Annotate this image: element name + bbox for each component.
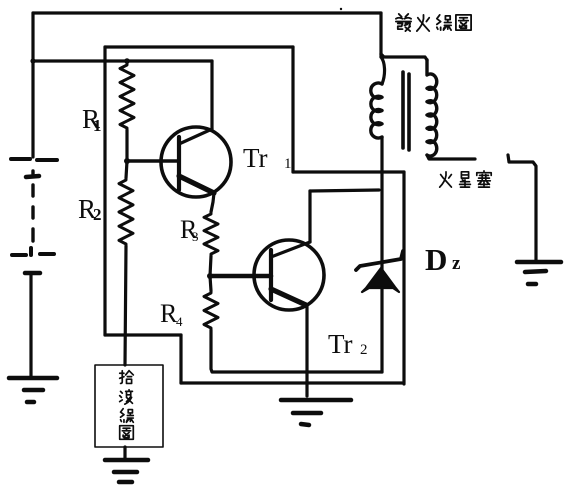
zener diode Dz anode triangle xyxy=(362,268,399,292)
svg-text:3: 3 xyxy=(192,229,199,244)
transistor Q2 emitter stroke xyxy=(271,289,306,305)
node C junction R1-R2-Tr1 base xyxy=(124,158,130,164)
wire inner-loop left step horizontal xyxy=(105,333,181,336)
transistor Q1 collector stroke xyxy=(179,129,212,144)
wire R3 to node D xyxy=(210,256,211,276)
wire R2 to pickup coil xyxy=(125,246,126,365)
wire Tr2 emitter down to ground xyxy=(305,305,308,396)
battery plate long 1 xyxy=(11,159,57,160)
resistor R4 xyxy=(204,291,218,330)
battery BAT vertical lead xyxy=(31,13,34,157)
node D junction R3-R4-Tr2 base xyxy=(207,273,213,279)
wire inner-loop bottom horizontal xyxy=(181,381,402,384)
wire inner-loop mid horizontal xyxy=(293,170,404,173)
ground G3 spark plug xyxy=(517,260,561,265)
svg-text:2: 2 xyxy=(360,342,368,358)
label 發火線圈 ignition coil xyxy=(396,14,471,31)
svg-text:2: 2 xyxy=(93,205,102,224)
ignition coil secondary winding xyxy=(427,60,437,156)
transistor Q2 base bar xyxy=(269,250,273,300)
wire Tr2 collector up xyxy=(308,191,311,242)
label 拾波線圈 pickup coil xyxy=(120,371,134,440)
svg-text:4: 4 xyxy=(176,314,183,329)
wire Tr1 collector vertical xyxy=(210,61,213,129)
ground G1 battery xyxy=(9,376,57,381)
svg-text:D: D xyxy=(425,242,447,277)
wire top supply from battery to ignition coil xyxy=(33,11,381,14)
battery plate short 1 xyxy=(26,176,39,177)
svg-text:1: 1 xyxy=(93,116,102,135)
label 火星塞 spark plug xyxy=(440,171,492,187)
wire coil drop vertical xyxy=(379,13,382,57)
svg-text:Tr: Tr xyxy=(328,329,353,359)
battery dashed cell gap xyxy=(31,171,34,241)
svg-text:z: z xyxy=(452,253,461,274)
ignition coil primary winding xyxy=(371,83,382,138)
transistor Q1 base bar xyxy=(177,137,181,190)
ignition coil core bars xyxy=(403,72,409,150)
resistor R3 xyxy=(204,212,218,256)
wire inner-loop top xyxy=(105,45,293,48)
spark plug gap right electrode xyxy=(508,155,536,262)
wire pickup coil to ground xyxy=(123,447,126,459)
transistor Q1 emitter stroke xyxy=(179,176,214,193)
wire secondary bottom to spark gap xyxy=(427,155,475,159)
transistor Q2 collector stroke xyxy=(271,242,310,257)
wire R1 to node xyxy=(125,130,128,161)
pickup coil box xyxy=(95,365,163,447)
wire primary top lead xyxy=(381,57,385,84)
zener diode Dz vertical lead xyxy=(380,137,383,372)
wire inner-loop right vertical lower xyxy=(402,172,405,384)
transistor Q2 Tr2 circle xyxy=(254,240,324,310)
svg-text:Tr: Tr xyxy=(243,143,268,173)
transistor Q1 Tr1 circle xyxy=(161,127,231,197)
wire base rail from battery xyxy=(33,59,212,62)
wire node C to R2 xyxy=(126,161,127,178)
node A junction battery-rail xyxy=(30,58,35,63)
wire inner-loop left vertical xyxy=(103,47,106,335)
wire inner-loop right vertical upper xyxy=(291,47,294,172)
wire Tr2 collector to Dz node xyxy=(310,190,379,191)
battery bottom lead xyxy=(29,274,32,378)
ground G2 emitter xyxy=(281,398,351,403)
battery plate short 2 xyxy=(25,271,40,276)
ground G4 pickup coil xyxy=(105,458,148,463)
wire coil top link xyxy=(381,54,427,60)
node B junction R1 top xyxy=(124,58,130,64)
wire Tr1 emitter to R3 xyxy=(211,193,214,212)
wire Tr1 base xyxy=(127,159,179,163)
wire node D to R4 xyxy=(210,276,211,291)
svg-text:1: 1 xyxy=(284,156,292,172)
resistor R2 xyxy=(119,178,133,246)
stray dot artifact xyxy=(340,8,342,10)
resistor R1 xyxy=(120,63,134,130)
wire inner-loop left step vertical xyxy=(179,335,182,383)
wire Tr2 base xyxy=(210,274,271,279)
battery plate long 2 xyxy=(12,248,54,255)
zener diode Dz cathode bar xyxy=(356,251,403,270)
wire R4 to bottom rail xyxy=(211,330,382,372)
